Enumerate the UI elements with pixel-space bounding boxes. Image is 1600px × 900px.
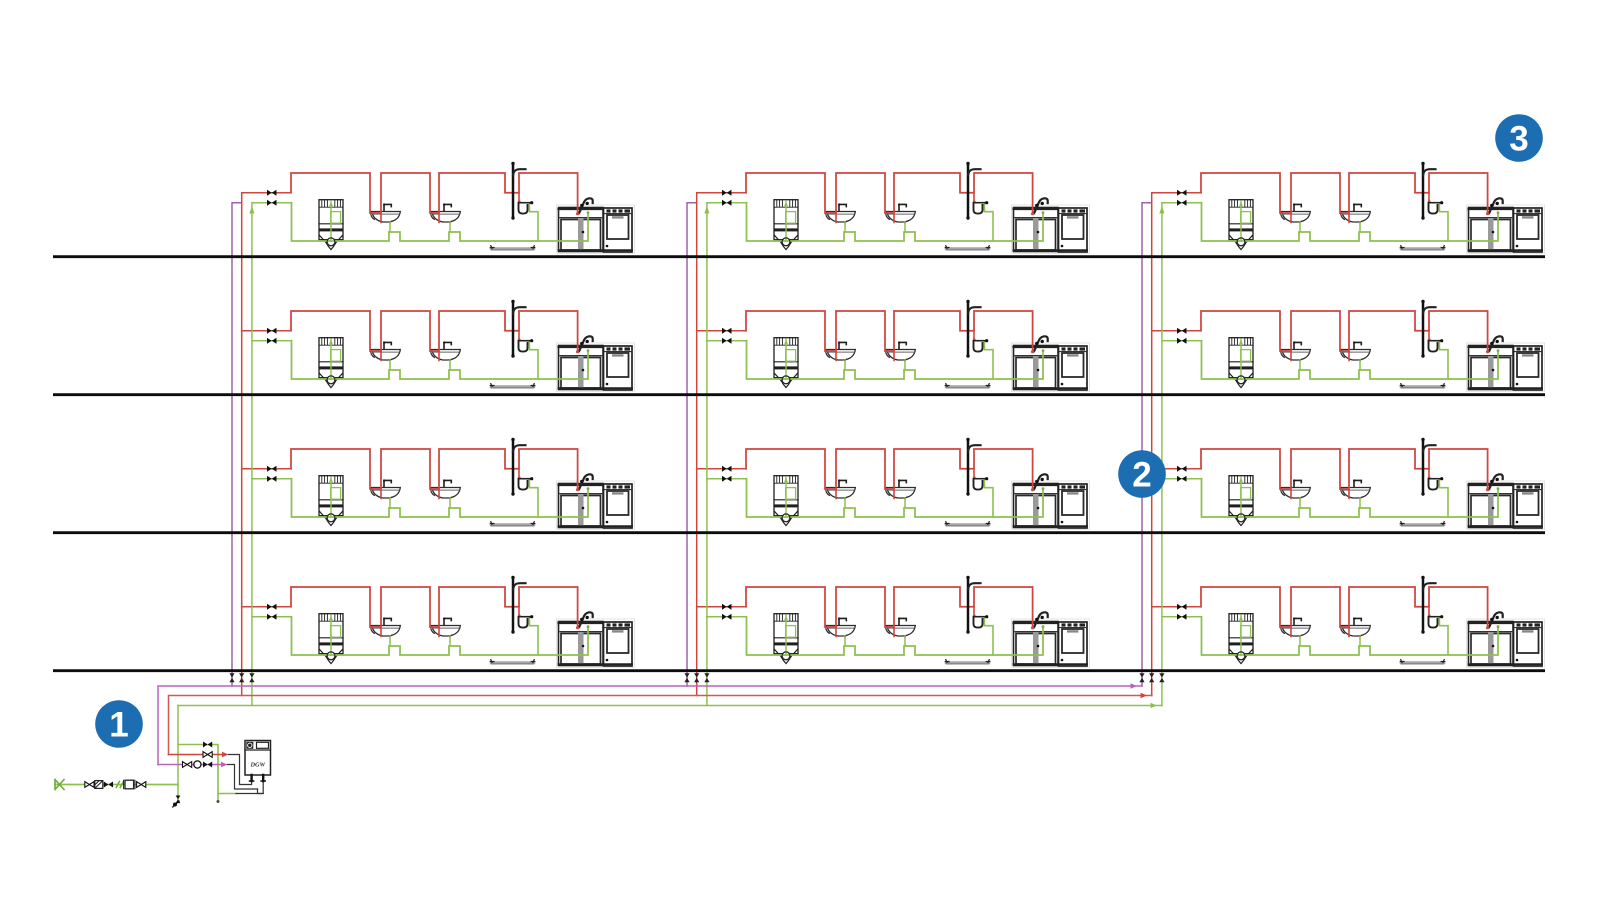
circulation arrow — [221, 762, 228, 767]
callout circle 1 — [95, 700, 143, 748]
drain valve — [173, 796, 181, 808]
cold water service drop — [177, 706, 179, 800]
apartment unit floor3 col3 — [1152, 438, 1545, 530]
apartment unit floor1 col3 — [1152, 162, 1545, 254]
floor slab line 3 — [53, 531, 1545, 534]
cold water main — [178, 705, 1162, 707]
apartment unit floor4 col3 — [1152, 576, 1545, 668]
service valve 2 — [137, 782, 142, 788]
circulation main arrow — [1131, 683, 1138, 689]
hot water main — [169, 696, 1152, 755]
circulation black pipe to heater — [228, 765, 258, 790]
apartment unit floor1 col2 — [697, 162, 1090, 254]
service valve 1 — [85, 782, 90, 788]
floor slab line 1 — [53, 255, 1545, 258]
svg-text:2: 2 — [1132, 456, 1151, 495]
apartment unit floor1 col1 — [242, 162, 635, 254]
svg-text:DGW: DGW — [249, 761, 265, 768]
floor slab line 4 — [53, 669, 1545, 672]
apartment unit floor3 col2 — [697, 438, 1090, 530]
street tap symbol — [55, 780, 64, 790]
svg-text:3: 3 — [1509, 120, 1528, 159]
circulation main — [158, 686, 1142, 765]
circulation check valve — [203, 762, 212, 768]
apartment unit floor3 col1 — [242, 438, 635, 530]
circulation return pipe — [158, 764, 222, 766]
hot outlet valve — [203, 752, 208, 758]
hot water pipe to heater — [169, 754, 224, 756]
apartment unit floor2 col1 — [242, 300, 635, 392]
riser group col3 — [1139, 193, 1164, 706]
filter — [95, 781, 103, 789]
cold water main arrow — [1151, 703, 1158, 709]
water heater DGW — [245, 741, 271, 782]
hot water arrow to main — [222, 752, 229, 757]
riser group col2 — [684, 193, 709, 706]
water meter — [124, 780, 135, 789]
callout circle 2 — [1118, 450, 1166, 498]
callout circle 3 — [1495, 114, 1543, 162]
heater hot outlet pipe — [229, 755, 252, 785]
flexible joint — [116, 782, 123, 788]
riser group col1 — [229, 193, 254, 706]
heater cold inlet pipe — [218, 793, 236, 795]
floor slab line 2 — [53, 393, 1545, 396]
apartment unit floor4 col2 — [697, 576, 1090, 668]
circulation pump — [194, 761, 201, 768]
cold feed to heater — [178, 745, 218, 802]
apartment unit floor4 col1 — [242, 576, 635, 668]
circulation valve — [183, 762, 188, 768]
apartment unit floor2 col2 — [697, 300, 1090, 392]
apartment unit floor2 col3 — [1152, 300, 1545, 392]
hot water main arrow — [1141, 693, 1148, 699]
street service line — [55, 784, 178, 786]
check valve street — [104, 782, 113, 788]
cold feed valve — [203, 742, 212, 748]
svg-text:1: 1 — [109, 706, 128, 745]
